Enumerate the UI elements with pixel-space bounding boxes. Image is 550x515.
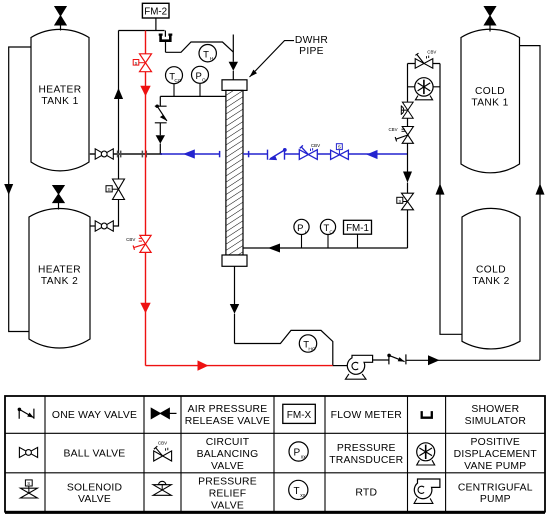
legend ball valve symbol <box>19 447 37 457</box>
svg-text:O: O <box>202 78 206 84</box>
svg-text:SHOWER: SHOWER <box>471 404 519 415</box>
svg-text:SIMULATOR: SIMULATOR <box>465 416 527 427</box>
svg-text:S: S <box>338 144 341 149</box>
svg-text:FLOW METER: FLOW METER <box>331 410 403 421</box>
svg-text:I: I <box>305 230 306 236</box>
svg-text:HO: HO <box>308 346 315 352</box>
solenoid valve SV1 on riser <box>106 179 125 200</box>
flow arrow down into DWHR pipe <box>229 62 238 71</box>
one way valve (vertical, manifold to supply line) <box>155 96 167 135</box>
cold tank 1 <box>461 29 520 173</box>
wire: blue preheated line left of column <box>160 151 219 157</box>
wire: blue line right of column <box>243 151 408 157</box>
svg-text:TANK 1: TANK 1 <box>471 98 508 109</box>
svg-text:CENTRIGUFAL: CENTRIGUFAL <box>458 482 533 493</box>
svg-text:T: T <box>203 49 209 60</box>
wire: riser lower segment to heater tank 2 <box>113 154 118 226</box>
positive displacement vane pump <box>415 78 433 100</box>
svg-text:VANE PUMP: VANE PUMP <box>464 461 526 472</box>
wire: gray pipe segment tank1 to junction <box>89 153 162 155</box>
legend air pressure release valve symbol <box>151 408 176 418</box>
wire: pump loop top rung <box>408 63 441 65</box>
svg-text:TANK 2: TANK 2 <box>41 276 78 287</box>
pressure relief valve PRV (on right rail) <box>401 102 413 118</box>
heater tank 1 <box>31 29 89 170</box>
svg-text:AIR PRESSURE: AIR PRESSURE <box>188 404 268 415</box>
svg-text:xx: xx <box>301 454 307 460</box>
svg-text:S: S <box>398 198 401 203</box>
svg-text:ONE WAY VALVE: ONE WAY VALVE <box>52 410 137 421</box>
pressure transducer P_O <box>192 66 209 96</box>
svg-text:xx: xx <box>300 493 306 499</box>
circuit balancing valve (red) <box>133 235 151 252</box>
blue flow arrow left (right segment) <box>367 150 378 159</box>
svg-text:HEATER: HEATER <box>38 264 81 275</box>
wire: cold tank rail x440 <box>440 64 462 335</box>
legend table frame <box>5 396 545 513</box>
solenoid valve (red) <box>133 54 151 72</box>
svg-text:P: P <box>196 71 202 82</box>
svg-text:CIRCUIT: CIRCUIT <box>206 437 250 448</box>
solenoid valve SV4 (right rail) <box>397 193 414 210</box>
flow arrow down on left return pipe <box>4 184 13 195</box>
wire: stem into shower simulator <box>164 31 166 37</box>
legend positive displacement vane pump symbol <box>417 443 435 465</box>
wire: pump inlet <box>333 365 348 367</box>
blue flow arrow left <box>183 149 195 158</box>
svg-text:VALVE: VALVE <box>211 500 244 511</box>
ball valve BV2 (heater tank 2 inlet) <box>90 221 113 231</box>
wire <box>159 144 161 154</box>
union ticks on tank line <box>118 151 147 158</box>
svg-text:SOLENOID: SOLENOID <box>67 482 122 493</box>
DWHR pipe label <box>250 35 329 77</box>
solenoid valve (blue) <box>331 144 349 160</box>
legend pressure relief valve symbol <box>153 481 171 495</box>
svg-text:CBV: CBV <box>388 127 397 132</box>
legend circuit balancing valve symbol <box>154 440 172 461</box>
svg-text:BALL VALVE: BALL VALVE <box>64 449 126 460</box>
one way valve (blue) <box>268 150 285 160</box>
RTD T_CI <box>320 219 335 248</box>
svg-text:TANK 1: TANK 1 <box>41 96 78 107</box>
svg-text:S: S <box>27 481 30 486</box>
svg-text:VALVE: VALVE <box>211 461 244 472</box>
flow arrow up on riser <box>114 88 123 99</box>
wire: cold tank 1 right rail <box>520 46 541 361</box>
legend one way valve symbol <box>18 408 34 419</box>
wire: red hot supply drop <box>146 31 333 366</box>
shower simulator <box>159 35 173 41</box>
flow arrow left on instrument line <box>268 244 280 253</box>
svg-text:H: H <box>210 56 214 62</box>
svg-text:COLD: COLD <box>475 86 505 97</box>
svg-text:CBV: CBV <box>427 49 436 54</box>
svg-text:DISPLACEMENT: DISPLACEMENT <box>454 449 538 460</box>
svg-text:PRESSURE: PRESSURE <box>337 443 396 454</box>
svg-text:POSITIVE: POSITIVE <box>471 437 521 448</box>
legend solenoid valve symbol <box>20 480 37 498</box>
svg-text:RTD: RTD <box>355 488 377 499</box>
wire: riser from tank line to FM-2 junction <box>118 31 120 155</box>
svg-text:CBV: CBV <box>311 143 320 148</box>
svg-text:DWHR: DWHR <box>295 35 328 46</box>
svg-text:HEATER: HEATER <box>39 85 82 96</box>
red flow arrow down 2 <box>140 303 150 313</box>
svg-text:RELEASE VALVE: RELEASE VALVE <box>185 416 270 427</box>
svg-text:CBV: CBV <box>158 440 167 445</box>
wire: bottom return line <box>406 359 540 361</box>
air pressure release valve on heater tank 2 <box>53 186 64 210</box>
wire: lower drain hump to pump <box>235 330 333 365</box>
svg-text:FM-1: FM-1 <box>346 223 369 234</box>
svg-text:VALVE: VALVE <box>78 494 111 505</box>
legend centrifugal pump symbol <box>414 479 440 503</box>
flow arrow up on x440 rail <box>436 183 445 194</box>
svg-text:FM-2: FM-2 <box>144 6 167 17</box>
wire: DWHR inlet vertical with vent <box>232 35 234 80</box>
circuit balancing valve CBV2 (right rail) <box>388 127 413 144</box>
flow meter FM-1 <box>344 220 372 248</box>
circuit balancing valve (blue) <box>299 145 317 159</box>
svg-text:TANK 2: TANK 2 <box>472 276 509 287</box>
wire: pump outlet <box>373 359 389 361</box>
svg-text:PIPE: PIPE <box>299 46 324 57</box>
air pressure release valve on heater tank 1 <box>55 7 66 31</box>
svg-text:PRESSURE: PRESSURE <box>198 477 257 488</box>
svg-text:CBV: CBV <box>126 237 135 242</box>
cold tank 2 <box>462 208 520 349</box>
legend flow meter symbol FM-X <box>283 404 316 423</box>
wire: heater loop left return pipe <box>9 47 31 332</box>
wire: cold water outlet manifold <box>160 95 226 97</box>
RTD T_CO <box>166 67 183 97</box>
svg-text:COLD: COLD <box>476 264 506 275</box>
red flow arrow down 1 <box>140 86 150 96</box>
svg-text:RELIEF: RELIEF <box>209 488 247 499</box>
ball valve BV1 (heater tank 1 outlet) <box>95 149 113 159</box>
flow arrow up on right rail <box>536 183 545 194</box>
wire: instrument line into DWHR cold inlet <box>243 247 408 249</box>
circuit balancing valve CBV3 (top rung) <box>415 49 436 68</box>
wire: pump rung <box>408 86 441 88</box>
svg-text:T: T <box>293 486 299 497</box>
svg-text:PUMP: PUMP <box>480 494 511 505</box>
air pressure release valve on cold tank 1 <box>484 7 495 32</box>
centrifugal pump <box>345 355 372 379</box>
wire: DWHR outlet stem down <box>234 266 236 343</box>
svg-text:P: P <box>293 448 300 459</box>
DWHR pipe heat exchanger column <box>222 80 247 266</box>
svg-text:S: S <box>107 187 110 193</box>
flow arrow down on DWHR outlet <box>230 304 239 314</box>
flow arrow down to supply line <box>156 135 165 143</box>
legend pressure transducer symbol <box>289 442 308 461</box>
pressure transducer P_I <box>294 219 309 248</box>
RTD T_HO on lower hump <box>299 335 316 353</box>
wire: right rail (cold supply down) <box>407 64 409 249</box>
flow meter FM-2 <box>142 3 169 30</box>
flow arrow down on right rail <box>403 172 412 183</box>
svg-text:CI: CI <box>329 230 334 236</box>
svg-text:CO: CO <box>174 78 181 84</box>
wire: FM-2 header line <box>119 30 165 32</box>
heater tank 2 <box>29 209 90 349</box>
one way valve (pump outlet) <box>387 354 406 365</box>
svg-text:BALANCING: BALANCING <box>197 449 259 460</box>
wire: drain hump to DWHR inlet <box>166 42 234 52</box>
legend RTD symbol <box>289 480 308 499</box>
svg-text:P: P <box>297 223 303 234</box>
svg-text:TRANSDUCER: TRANSDUCER <box>329 455 403 466</box>
svg-text:FM-X: FM-X <box>287 410 312 421</box>
svg-text:S: S <box>135 60 138 65</box>
legend shower simulator symbol <box>422 411 432 418</box>
RTD T_H on drain hump <box>199 45 216 63</box>
wire: drain from shower simulator <box>165 41 167 53</box>
red flow arrow right (bottom) <box>198 360 209 370</box>
flow arrow right on bottom line <box>428 355 440 365</box>
